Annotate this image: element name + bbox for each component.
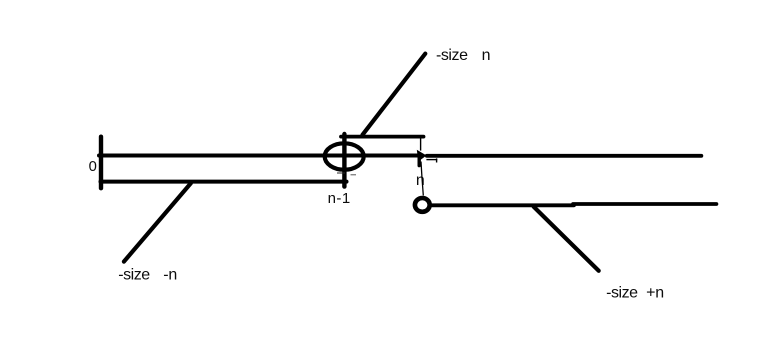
wire: thin pointer line down to ring (through label n) [421,162,423,196]
callout line to label -size +n [534,207,599,271]
faint leftover marks under ellipse [337,172,345,174]
svg-text:n: n [482,47,491,64]
small squiggle right of arrowhead [426,159,437,161]
ring marker at start of lower line (position n) [415,198,430,212]
wire: top bracket segment (y=136.6, x=341..424) [341,135,424,139]
callout line to label -size n [363,54,426,135]
svg-text:n-1: n-1 [328,190,351,207]
ellipse marker around position n-1 [325,143,364,169]
ink drip stub below arrowhead [418,157,421,166]
svg-text:0: 0 [89,159,97,175]
wire: center vertical tick at x=344.4 [342,134,346,187]
svg-text:+n: +n [646,284,664,301]
arrowhead pointing down onto main line [417,150,427,162]
svg-text:-size: -size [436,47,468,64]
small tick on squiggle [436,158,438,162]
wire: main horizontal line left part (array top edge, x=99..418, y=155.5) [99,154,418,158]
wire: thin drop from bracket to arrow (x=420.6) [420,138,422,151]
wire: main horizontal line right part (x=428..701, y=155.8) [427,154,702,158]
callout line to label -size -n [124,183,191,261]
wire: array bottom edge (x=100..347, y=181.6) [101,180,347,184]
svg-text:-size: -size [606,284,638,301]
wire: left vertical end tick at x=101 [99,137,103,189]
wire: lower-right line segment 1 (y=205.3) [432,203,575,207]
wire: lower-right line segment 2 (y=204) [573,202,716,206]
svg-text:-n: -n [163,266,177,283]
svg-text:-size: -size [118,266,150,283]
